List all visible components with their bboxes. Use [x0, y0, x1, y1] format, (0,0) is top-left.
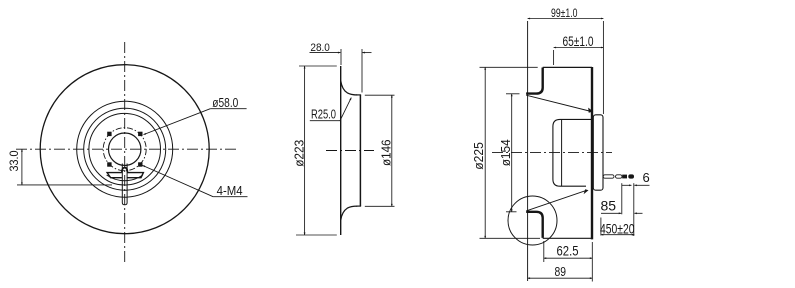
collar top line: [356, 94, 361, 96]
cable end filled pill: [628, 174, 634, 178]
bore circle: [109, 133, 141, 165]
dim 62.5 ext right: [591, 242, 593, 282]
dim 6 arrow left: [622, 184, 632, 186]
dim 62.5 ext left: [543, 241, 545, 262]
hub wing left: [107, 173, 122, 178]
cable segment 3 filled: [622, 175, 627, 179]
collar front face: [359, 95, 361, 206]
dim 6 ext right: [633, 183, 635, 236]
svg-text:ø225: ø225: [471, 142, 486, 170]
Ø146 ext top: [365, 94, 395, 96]
28.0 ext line left (back line extension): [340, 49, 342, 65]
svg-text:ø146: ø146: [378, 140, 393, 167]
keyway slot: [122, 164, 128, 205]
dim 450 ext left: [600, 218, 602, 236]
svg-text:89: 89: [555, 265, 567, 279]
R25.0 underline: [310, 120, 340, 122]
dim 62.5 line: [544, 257, 593, 259]
centerline middle view: [326, 150, 374, 152]
Ø223 ext line top: [299, 65, 337, 67]
28.0 dim arrow right (outside): [362, 52, 371, 54]
front face / ext line vertical: [527, 21, 529, 281]
Ø146 ext bottom: [365, 205, 395, 207]
dim 65 line: [554, 47, 604, 49]
svg-text:65±1.0: 65±1.0: [563, 34, 594, 49]
centerline right view: [492, 151, 612, 153]
dim 450 line: [601, 234, 634, 236]
svg-text:85: 85: [601, 198, 617, 214]
dim 85 arrow right (outside): [634, 212, 642, 214]
vertical centerline: [124, 42, 126, 263]
cone top end wedge: [588, 108, 593, 113]
svg-text:ø223: ø223: [292, 140, 307, 167]
dim 6 arrow right tail: [634, 184, 649, 186]
Ø223 dimension line: [304, 66, 306, 235]
Ø146 dimension line: [391, 95, 393, 206]
svg-text:ø58.0: ø58.0: [212, 95, 238, 110]
dim 99 ext right / flange line: [602, 21, 604, 114]
svg-text:33.0: 33.0: [7, 150, 21, 171]
cone bottom end wedge: [584, 189, 589, 194]
hub partial arc: [107, 175, 143, 181]
dim 99 line: [528, 18, 604, 20]
motor body: [553, 119, 592, 186]
detail circle: [508, 196, 557, 245]
svg-text:450±20: 450±20: [600, 220, 635, 236]
bottom flare arc: [341, 206, 358, 220]
Ø223 ext line bottom: [296, 234, 337, 236]
svg-text:6: 6: [643, 170, 650, 185]
label Ø58.0 leader: [144, 109, 211, 135]
label 4-M4 underline: [213, 196, 247, 198]
bottom flare L-profile: [526, 212, 543, 238]
cable segment 1: [603, 175, 614, 178]
dim 6 ext left: [621, 183, 623, 214]
dim 85 arrow left (outside): [601, 212, 621, 214]
cable segment 2: [616, 175, 623, 178]
rim bottom line: [543, 237, 592, 239]
motor flange: [593, 115, 603, 190]
circle r48: [77, 101, 173, 197]
svg-text:R25.0: R25.0: [311, 107, 336, 122]
hub wing right: [127, 173, 143, 178]
Ø154 ext top: [506, 93, 520, 95]
dimension 33.0 ext line bottom: [17, 184, 112, 186]
rim top line: [543, 66, 592, 68]
back plate line: [340, 66, 342, 235]
dimension 33.0 line: [21, 149, 23, 185]
M4 hole squares: [107, 132, 142, 167]
28.0 ext line right: [361, 49, 363, 93]
label 4-M4 leader: [143, 165, 214, 196]
top flare L-profile: [526, 68, 543, 94]
28.0 dim arrow left (outside): [310, 52, 341, 54]
svg-text:28.0: 28.0: [310, 42, 330, 54]
svg-text:ø154: ø154: [498, 139, 513, 166]
horizontal centerline: [16, 148, 236, 150]
label Ø58.0 underline: [210, 108, 246, 110]
Ø154 dim line: [511, 94, 513, 212]
circle r41: [84, 108, 166, 190]
Ø154 ext bottom: [506, 211, 517, 213]
shroud cone bottom: [526, 190, 586, 211]
outer circle Ø225: [40, 65, 209, 234]
collar bottom line: [356, 205, 361, 207]
svg-text:62.5: 62.5: [557, 243, 579, 259]
top flare arc: [341, 81, 358, 95]
motor inner line: [561, 119, 563, 186]
dim 65 ext left: [553, 50, 555, 65]
R25.0 leader: [340, 98, 351, 121]
Ø225 ext top: [480, 66, 538, 68]
back plate: [591, 67, 593, 239]
Ø225 dim line: [484, 67, 486, 238]
shroud cone top: [526, 95, 591, 111]
bolt circle Ø58 dash-dot: [103, 128, 146, 171]
dim 89 line: [528, 277, 593, 279]
circle r35.8: [89, 113, 161, 185]
Ø225 ext bottom: [480, 237, 541, 239]
svg-text:99±1.0: 99±1.0: [551, 6, 578, 20]
svg-text:4-M4: 4-M4: [217, 183, 243, 198]
